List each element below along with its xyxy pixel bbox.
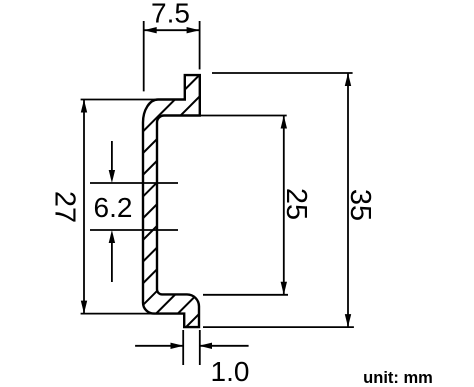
dim 27 extension line top — [81, 99, 185, 101]
dim 7.5 extension line left — [143, 21, 145, 91]
dim 27 extension line bottom — [81, 313, 185, 315]
dim 7.5 arrowhead left — [144, 27, 157, 33]
svg-text:27: 27 — [49, 191, 81, 223]
dim 25 extension line top — [200, 115, 287, 117]
dim 7.5 dimension line — [144, 29, 200, 31]
svg-text:25: 25 — [280, 188, 312, 220]
dim 7.5 extension line right — [199, 21, 201, 69]
svg-text:1.0: 1.0 — [211, 356, 250, 387]
dim 35 extension line bottom — [203, 326, 354, 328]
dim 1.0 arrowhead pointing right — [171, 343, 184, 349]
svg-text:6.2: 6.2 — [94, 192, 133, 223]
dim 35 arrowhead bottom — [345, 314, 351, 327]
svg-text:35: 35 — [344, 189, 376, 221]
dim 6.2 arrowhead down — [109, 170, 115, 183]
dim 27 dimension line — [83, 100, 85, 314]
svg-text:7.5: 7.5 — [151, 0, 190, 28]
dim 35 extension line top — [212, 72, 353, 74]
dim 25 arrowhead bottom — [281, 282, 287, 295]
dim 6.2 upper arrow shaft — [111, 141, 113, 176]
dim 6.2 lower line — [90, 229, 178, 231]
profile cross-section outline (DIN rail section) — [143, 75, 200, 327]
dim 25 dimension line — [283, 116, 285, 295]
dim 6.2 lower arrow shaft — [111, 237, 113, 282]
dim 1.0 extension line right — [199, 330, 201, 365]
dim 27 arrowhead top — [81, 100, 87, 113]
dim 1.0 dimension line left segment — [135, 345, 183, 347]
dim 7.5 arrowhead right — [187, 27, 200, 33]
dim 6.2 arrowhead up — [109, 230, 115, 243]
dim 6.2 upper line — [90, 182, 178, 184]
svg-text:unit: mm: unit: mm — [363, 369, 433, 387]
dim 35 arrowhead top — [345, 73, 351, 86]
dim 25 extension line bottom — [203, 294, 288, 296]
dim 1.0 arrowhead pointing left — [199, 343, 212, 349]
dim 25 arrowhead top — [281, 116, 287, 129]
dim 27 arrowhead bottom — [81, 301, 87, 314]
dim 1.0 dimension line right segment — [199, 345, 249, 347]
dim 1.0 extension line left — [182, 330, 184, 365]
dim 35 dimension line — [347, 73, 349, 327]
